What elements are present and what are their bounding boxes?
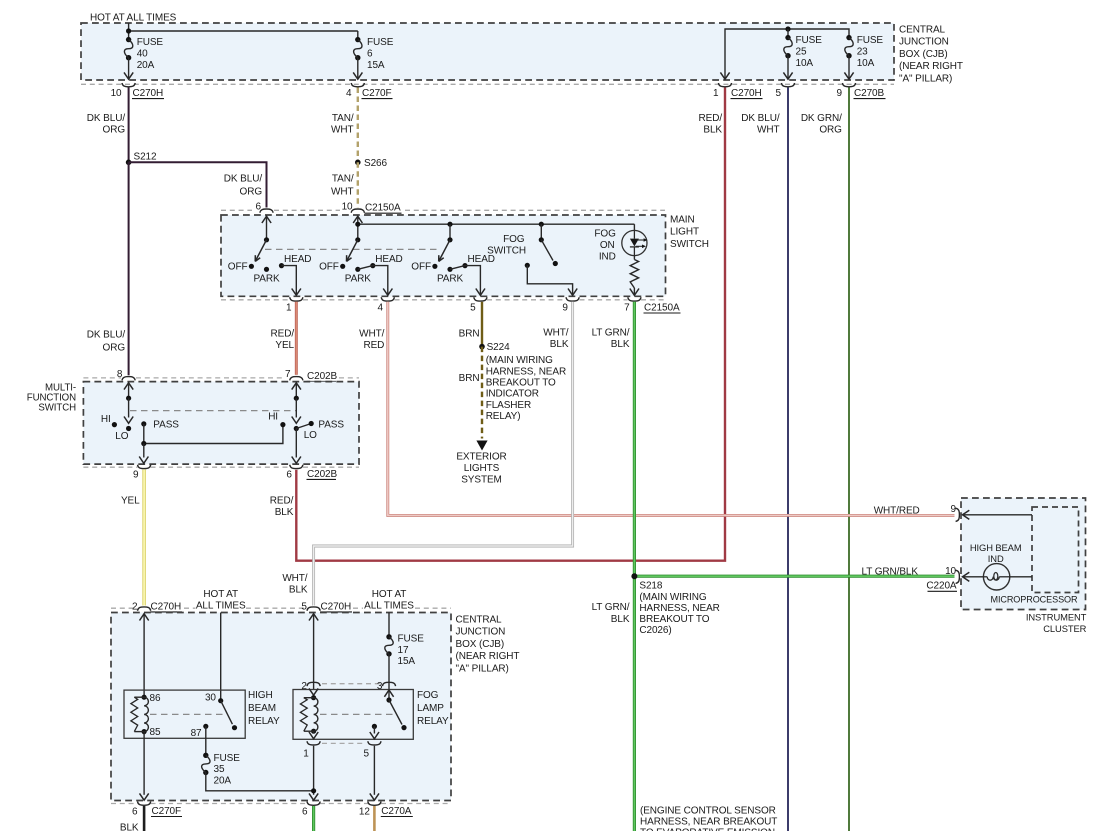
svg-text:40: 40 xyxy=(137,48,148,59)
svg-text:C202B: C202B xyxy=(307,469,338,480)
junction dot at fuse 40 top xyxy=(126,28,131,33)
pin 4 C270F (top CJB) xyxy=(351,83,364,87)
svg-text:C220A: C220A xyxy=(926,581,957,592)
connector row above light switch C2150A xyxy=(221,209,252,211)
svg-text:LT GRN/: LT GRN/ xyxy=(592,328,630,339)
svg-text:WHT/RED: WHT/RED xyxy=(874,505,920,516)
wire TAN from pin 12 xyxy=(373,806,376,831)
fuse 23 xyxy=(846,35,851,40)
svg-text:20A: 20A xyxy=(137,60,155,71)
svg-text:TAN/: TAN/ xyxy=(332,174,354,185)
svg-text:FOG: FOG xyxy=(503,234,525,245)
contact PASS (left) xyxy=(141,421,146,426)
relay dashed link xyxy=(150,713,228,715)
wire pin5 to fog relay pin 2 xyxy=(313,614,315,690)
dimmer blade (left) toward LO xyxy=(128,398,130,417)
switch pole dot xyxy=(355,237,360,242)
svg-text:OFF: OFF xyxy=(319,261,339,272)
wire BRN light switch pin5 to S224 xyxy=(481,302,483,347)
contact PARK xyxy=(264,267,269,272)
dimmer linkage (dashed) xyxy=(130,410,296,412)
fog contact to pin 5 xyxy=(373,726,375,733)
svg-text:3: 3 xyxy=(377,681,383,692)
wire fuse25 to pin 5 xyxy=(787,56,789,79)
svg-text:BLK: BLK xyxy=(275,507,294,518)
contact HI (left) xyxy=(112,422,117,427)
pin 12 C270A (lower CJB bottom) xyxy=(368,802,381,806)
dimmer pole dot (left) xyxy=(126,396,131,401)
fog relay switch entry arrow (pin 3) xyxy=(384,690,393,697)
high beam relay coil xyxy=(142,695,147,700)
wire WHT/RED light switch pin4 to instrument cluster pin 9 xyxy=(388,302,955,516)
svg-text:MICROPROCESSOR: MICROPROCESSOR xyxy=(990,594,1078,604)
central junction box (top) outline xyxy=(81,23,894,80)
svg-text:LO: LO xyxy=(115,431,128,442)
svg-text:TO EVAPORATIVE EMISSION: TO EVAPORATIVE EMISSION xyxy=(640,827,775,831)
wire fuse 35 to pin 6 xyxy=(206,773,314,791)
blade to PASS (right) xyxy=(296,424,311,429)
svg-text:IND: IND xyxy=(988,553,1004,564)
svg-text:RED/: RED/ xyxy=(699,113,723,124)
svg-text:CENTRAL: CENTRAL xyxy=(899,24,946,35)
svg-text:RELAY: RELAY xyxy=(417,716,449,727)
splice S266 xyxy=(355,160,361,166)
svg-text:6: 6 xyxy=(256,201,262,212)
svg-text:"A" PILLAR): "A" PILLAR) xyxy=(899,74,952,85)
svg-text:(MAIN WIRING: (MAIN WIRING xyxy=(639,592,706,603)
svg-text:HIGH: HIGH xyxy=(248,690,273,701)
svg-text:OFF: OFF xyxy=(411,261,431,272)
svg-text:FOG: FOG xyxy=(594,229,616,240)
svg-text:BLK: BLK xyxy=(703,125,722,136)
svg-text:23: 23 xyxy=(857,46,868,57)
svg-text:HOT AT: HOT AT xyxy=(203,589,238,600)
entry arrow pin 6 xyxy=(262,216,271,223)
wire DK GRN/ORG pin 9 down xyxy=(848,88,850,831)
svg-text:5: 5 xyxy=(776,88,782,99)
svg-text:6: 6 xyxy=(286,470,292,481)
svg-text:10: 10 xyxy=(111,88,122,99)
svg-text:DK BLU/: DK BLU/ xyxy=(87,330,126,341)
svg-text:HI: HI xyxy=(101,414,111,425)
arrow to exterior lights system xyxy=(476,441,487,451)
fuse 6 xyxy=(355,37,360,42)
svg-text:FUSE: FUSE xyxy=(398,633,425,644)
fog relay pin 3 xyxy=(382,682,395,686)
svg-text:LIGHT: LIGHT xyxy=(670,227,699,238)
svg-text:JUNCTION: JUNCTION xyxy=(456,627,506,638)
svg-text:C270F: C270F xyxy=(362,88,392,99)
svg-text:DK BLU/: DK BLU/ xyxy=(87,113,126,124)
contact PARK xyxy=(447,267,452,272)
svg-text:DK BLU/: DK BLU/ xyxy=(224,174,263,185)
svg-text:30: 30 xyxy=(205,693,216,704)
svg-text:15A: 15A xyxy=(367,60,385,71)
svg-text:C270H: C270H xyxy=(731,88,762,99)
wire 87 to fuse 35 xyxy=(205,726,207,755)
svg-text:86: 86 xyxy=(150,693,161,704)
wire PARK to HEAD xyxy=(450,266,465,270)
fog switch contact dot xyxy=(525,263,530,268)
svg-text:4: 4 xyxy=(346,88,352,99)
bus wire fuse40 to fuse6 xyxy=(129,30,358,32)
svg-text:12: 12 xyxy=(359,807,370,818)
svg-text:WHT: WHT xyxy=(331,125,353,136)
pin 5 C270H (lower CJB) xyxy=(307,607,320,611)
high beam relay outline xyxy=(124,690,245,738)
svg-text:25: 25 xyxy=(796,46,807,57)
wire HEAD to output pin xyxy=(373,266,388,296)
svg-text:HEAD: HEAD xyxy=(375,254,402,265)
contact PASS (right) xyxy=(309,421,314,426)
svg-text:HARNESS, NEAR BREAKOUT: HARNESS, NEAR BREAKOUT xyxy=(640,816,777,827)
fog switch blade xyxy=(541,240,553,261)
svg-text:S218: S218 xyxy=(639,580,662,591)
wire pin7 through right switch to pin 6 xyxy=(295,383,297,399)
svg-text:CLUSTER: CLUSTER xyxy=(1043,623,1086,634)
svg-text:RELAY: RELAY xyxy=(248,716,280,727)
svg-text:LT GRN/: LT GRN/ xyxy=(592,602,630,613)
entry arrow pin 5 xyxy=(309,614,318,621)
svg-text:C270A: C270A xyxy=(381,806,412,817)
junction dot (fuse35 wire) xyxy=(311,788,316,793)
pin 1 (light switch bottom) xyxy=(290,297,303,301)
main light switch outline xyxy=(221,215,666,296)
svg-text:LT GRN/BLK: LT GRN/BLK xyxy=(862,567,919,578)
svg-text:15A: 15A xyxy=(398,656,416,667)
wire HEAD to output pin xyxy=(465,266,480,296)
wire fog contact to pin 9 xyxy=(527,265,572,295)
svg-text:ALL TIMES: ALL TIMES xyxy=(196,601,246,612)
pin 5 (light switch bottom) xyxy=(474,297,487,301)
wire right pole to pin 6 xyxy=(295,429,297,458)
svg-text:BLK: BLK xyxy=(550,339,569,350)
wire hot feed to relay 30 xyxy=(220,613,222,701)
entry arrow pin 7 xyxy=(292,383,301,390)
switch pole dot xyxy=(447,237,452,242)
svg-text:BEAM: BEAM xyxy=(248,703,276,714)
svg-text:10: 10 xyxy=(342,201,353,212)
wire pin10 to switch2 pole xyxy=(357,216,359,240)
svg-text:C2150A: C2150A xyxy=(644,302,680,313)
wire HEAD to output pin xyxy=(282,266,297,296)
svg-text:20A: 20A xyxy=(214,776,232,787)
svg-text:PARK: PARK xyxy=(345,274,372,285)
svg-text:7: 7 xyxy=(285,369,291,380)
svg-text:S212: S212 xyxy=(134,152,157,163)
pin 9 (MFS bottom) xyxy=(138,465,151,469)
svg-text:10A: 10A xyxy=(796,58,814,69)
svg-text:C270H: C270H xyxy=(151,601,182,612)
svg-text:WHT/: WHT/ xyxy=(282,573,307,584)
svg-text:ORG: ORG xyxy=(240,186,263,197)
wire TAN/WHT S266 to light switch pin 10 xyxy=(357,162,359,207)
svg-text:LAMP: LAMP xyxy=(417,703,444,714)
svg-text:FUSE: FUSE xyxy=(214,753,241,764)
svg-text:1: 1 xyxy=(303,749,309,760)
svg-text:C202B: C202B xyxy=(307,371,338,382)
svg-text:C270H: C270H xyxy=(133,88,164,99)
svg-text:CENTRAL: CENTRAL xyxy=(456,614,503,625)
svg-text:WHT/: WHT/ xyxy=(543,328,568,339)
wire YEL MFS pin 9 to lower CJB pin 2 xyxy=(142,470,146,606)
wire BRN dashed to exterior lights xyxy=(481,347,483,439)
svg-text:ORG: ORG xyxy=(103,342,126,353)
svg-text:EXTERIOR: EXTERIOR xyxy=(456,452,506,463)
indicator resistor xyxy=(633,256,635,260)
LED symbol xyxy=(633,230,635,238)
svg-text:ALL TIMES: ALL TIMES xyxy=(364,601,414,612)
high beam indicator lamp xyxy=(983,564,1009,590)
svg-text:10: 10 xyxy=(945,566,956,577)
svg-text:C2150A: C2150A xyxy=(365,203,401,214)
svg-text:6: 6 xyxy=(132,807,138,818)
svg-text:SWITCH: SWITCH xyxy=(487,245,526,256)
wire TAN/WHT pin4 to S266 xyxy=(357,88,359,163)
svg-text:7: 7 xyxy=(624,302,630,313)
pin 10 C2150A (light switch top) xyxy=(351,209,364,213)
svg-text:FUSE: FUSE xyxy=(137,37,164,48)
svg-text:C270H: C270H xyxy=(321,601,352,612)
svg-text:6: 6 xyxy=(367,48,373,59)
svg-text:9: 9 xyxy=(951,504,957,515)
pin 4 (light switch bottom) xyxy=(381,297,394,301)
pin 7 C2150A (light switch bottom) xyxy=(628,297,641,301)
svg-text:INDICATOR: INDICATOR xyxy=(486,389,539,400)
LED arrows xyxy=(636,239,645,241)
wire lamp to pin 10 xyxy=(963,576,984,578)
fog relay blade xyxy=(389,700,402,725)
contact HI (right) xyxy=(280,422,285,427)
pin 6 (light switch top) xyxy=(260,209,273,213)
wire pin8 to dimmer pole xyxy=(128,383,130,399)
wire RED/BLK pin1 C270H to MFS pin 6 xyxy=(296,88,725,561)
svg-text:RELAY): RELAY) xyxy=(486,411,521,422)
svg-text:RED/: RED/ xyxy=(270,496,294,507)
svg-text:HIGH BEAM: HIGH BEAM xyxy=(970,542,1022,553)
entry arrow pin 10 xyxy=(353,216,362,223)
contact LO (left) xyxy=(126,426,131,431)
svg-text:87: 87 xyxy=(191,728,202,739)
contact HEAD xyxy=(370,263,375,268)
svg-text:LIGHTS: LIGHTS xyxy=(464,463,500,474)
svg-text:BRN: BRN xyxy=(459,329,480,340)
svg-text:HARNESS, NEAR: HARNESS, NEAR xyxy=(639,603,719,614)
svg-text:5: 5 xyxy=(364,749,370,760)
svg-text:C270B: C270B xyxy=(854,88,885,99)
svg-text:17: 17 xyxy=(398,645,409,656)
wire pin6 to switch1 pole xyxy=(266,216,268,240)
wire bus to switch3 pole xyxy=(449,224,451,240)
fog relay dashed link xyxy=(320,713,396,715)
connector row below light switch C2150A xyxy=(221,299,290,301)
pin 6 (lower CJB bottom centre) xyxy=(307,802,320,806)
splice S212 xyxy=(126,160,132,166)
svg-text:BREAKOUT TO: BREAKOUT TO xyxy=(639,614,709,625)
fuse 35 xyxy=(203,753,208,758)
fog switch blade tip dot xyxy=(553,261,558,266)
svg-text:PARK: PARK xyxy=(253,274,280,285)
wire DK BLU/WHT pin 5 down xyxy=(787,88,789,831)
fog blade tip dot xyxy=(401,725,406,730)
fuse 40 xyxy=(126,37,131,42)
multi-function switch outline xyxy=(83,382,359,465)
svg-text:1: 1 xyxy=(286,302,292,313)
svg-text:YEL: YEL xyxy=(275,340,294,351)
ganged switch linkage (dashed) xyxy=(265,248,441,250)
contact 87 dot xyxy=(203,724,208,729)
svg-text:9: 9 xyxy=(562,302,568,313)
pin 9 C270B (top CJB) xyxy=(842,83,855,87)
wire fuse40 to pin 10 xyxy=(128,58,130,79)
contact HEAD xyxy=(279,263,284,268)
switch pole dot xyxy=(264,237,269,242)
pin 9 (instrument cluster) xyxy=(956,508,960,521)
fuse 17 xyxy=(386,634,391,639)
svg-text:"A" PILLAR): "A" PILLAR) xyxy=(456,664,509,675)
svg-text:DK BLU/: DK BLU/ xyxy=(741,113,780,124)
svg-text:JUNCTION: JUNCTION xyxy=(899,37,949,48)
contact PARK xyxy=(355,267,360,272)
wire DK BLU/ORG S212 branch to light switch pin 6 xyxy=(129,162,267,207)
svg-text:MAIN: MAIN xyxy=(670,214,695,225)
splice S224 xyxy=(479,344,485,350)
svg-text:8: 8 xyxy=(117,369,123,380)
contact HEAD xyxy=(462,263,467,268)
svg-text:35: 35 xyxy=(214,764,225,775)
entry arrow pin 8 xyxy=(124,383,133,390)
microprocessor outline xyxy=(1032,507,1079,593)
svg-text:FUSE: FUSE xyxy=(857,35,884,46)
junction dot bus at switch2 xyxy=(355,222,360,227)
fuse 25 xyxy=(785,35,790,40)
fog relay coil entry arrow xyxy=(309,688,318,695)
fog relay coil xyxy=(311,695,316,700)
svg-text:WHT: WHT xyxy=(757,125,779,136)
contact OFF xyxy=(432,264,437,269)
fog relay pin 1 xyxy=(307,741,320,745)
switch blade toward OFF xyxy=(347,240,358,262)
svg-text:(NEAR RIGHT: (NEAR RIGHT xyxy=(456,651,520,662)
svg-text:BREAKOUT TO: BREAKOUT TO xyxy=(486,378,556,389)
svg-text:(ENGINE CONTROL SENSOR: (ENGINE CONTROL SENSOR xyxy=(640,805,776,816)
wire WHT/BLK light switch pin9 to lower CJB pin 5 xyxy=(314,302,573,606)
svg-text:BLK: BLK xyxy=(611,339,630,350)
svg-text:OFF: OFF xyxy=(228,261,248,272)
fog switch pole dot xyxy=(539,237,544,242)
svg-text:RED: RED xyxy=(363,340,384,351)
svg-text:FOG: FOG xyxy=(417,690,439,701)
svg-text:BOX (CJB): BOX (CJB) xyxy=(456,639,505,650)
svg-text:BLK: BLK xyxy=(289,585,308,596)
svg-text:TAN/: TAN/ xyxy=(332,113,354,124)
wire pin2 to relay coil 86 xyxy=(143,614,145,698)
pin 10 C270H (top CJB) xyxy=(122,83,135,87)
contact OFF xyxy=(249,264,254,269)
wire lamp to microprocessor xyxy=(1010,576,1032,578)
svg-text:C2026): C2026) xyxy=(639,625,671,636)
wire fuse23 to pin 9 xyxy=(848,56,850,79)
pin 6 C270F (lower CJB bottom) xyxy=(138,802,151,806)
junction dot bus at switch3 xyxy=(447,222,452,227)
svg-text:BRN: BRN xyxy=(459,373,480,384)
svg-text:2: 2 xyxy=(132,601,138,612)
wire BLK from pin 6 C270F xyxy=(143,806,146,831)
wire PASS to pin 9 and to right HI xyxy=(143,424,145,444)
fog relay pin 2 xyxy=(307,682,320,686)
svg-text:6: 6 xyxy=(302,807,308,818)
connector row above lower CJB xyxy=(111,607,137,609)
fog relay pins 1/5 connector row xyxy=(322,742,366,744)
pole dot (right) xyxy=(294,426,299,431)
svg-text:C270F: C270F xyxy=(152,806,182,817)
wire LT GRN/BLK S218 to instrument cluster pin 10 xyxy=(634,575,954,578)
svg-text:2: 2 xyxy=(301,681,307,692)
wire RED/YEL light switch pin1 to MFS pin7 xyxy=(295,302,298,375)
wire DK BLU/ORG pin10 to S212 xyxy=(128,88,130,163)
fog relay switch pole dot xyxy=(386,697,391,702)
svg-text:YEL: YEL xyxy=(121,496,140,507)
svg-text:5: 5 xyxy=(301,601,307,612)
pin 8 (MFS top) xyxy=(122,377,135,381)
relay 30 pole dot xyxy=(218,698,223,703)
connector row below lower CJB xyxy=(111,803,138,805)
svg-text:HOT AT: HOT AT xyxy=(372,589,407,600)
svg-text:85: 85 xyxy=(150,727,161,738)
pin 7 C202B (MFS top) xyxy=(290,377,303,381)
blade tip dot xyxy=(232,725,237,730)
svg-text:S224: S224 xyxy=(487,342,510,353)
svg-text:INSTRUMENT: INSTRUMENT xyxy=(1026,612,1087,623)
svg-text:WHT/: WHT/ xyxy=(359,329,384,340)
svg-text:HEAD: HEAD xyxy=(284,254,311,265)
svg-text:FLASHER: FLASHER xyxy=(486,400,531,411)
fog indicator LED circle xyxy=(622,230,647,255)
svg-text:1: 1 xyxy=(713,88,719,99)
svg-text:PARK: PARK xyxy=(437,274,464,285)
wire pin9 to microprocessor xyxy=(963,514,1032,516)
switch blade toward OFF xyxy=(255,240,266,262)
switch blade toward OFF xyxy=(439,240,450,262)
connector row below MFS C202B xyxy=(83,466,137,468)
fog lamp relay pins 2/3 connector row xyxy=(322,683,380,685)
svg-text:10A: 10A xyxy=(857,58,875,69)
svg-text:SYSTEM: SYSTEM xyxy=(461,474,502,485)
svg-text:BLK: BLK xyxy=(611,614,630,625)
svg-text:ON: ON xyxy=(600,240,615,251)
svg-text:9: 9 xyxy=(837,88,843,99)
svg-text:HOT AT ALL TIMES: HOT AT ALL TIMES xyxy=(90,12,177,23)
pin 9 (light switch bottom) xyxy=(566,297,579,301)
entry arrow pin 2 xyxy=(140,614,149,621)
high beam relay blade xyxy=(221,701,233,725)
fog contact dot xyxy=(372,724,377,729)
instrument cluster outline xyxy=(961,498,1086,610)
wire coil 85 to pin 6 C270F xyxy=(143,732,145,795)
wire hot feed to fuse 17 xyxy=(388,613,390,637)
wire LT GRN from centre pin 6 xyxy=(312,806,315,831)
wire bus to fog switch pole xyxy=(540,224,542,240)
fog relay pin 5 xyxy=(368,741,381,745)
wire resistor to pin 7 xyxy=(633,288,635,295)
svg-text:ORG: ORG xyxy=(103,125,126,136)
svg-text:BLK: BLK xyxy=(120,823,139,831)
svg-text:ORG: ORG xyxy=(819,125,842,136)
wire bus to indicator LED xyxy=(633,224,635,230)
svg-text:WHT: WHT xyxy=(331,186,353,197)
svg-text:HI: HI xyxy=(268,412,278,423)
internal bus to fog switch and indicator xyxy=(358,223,635,225)
